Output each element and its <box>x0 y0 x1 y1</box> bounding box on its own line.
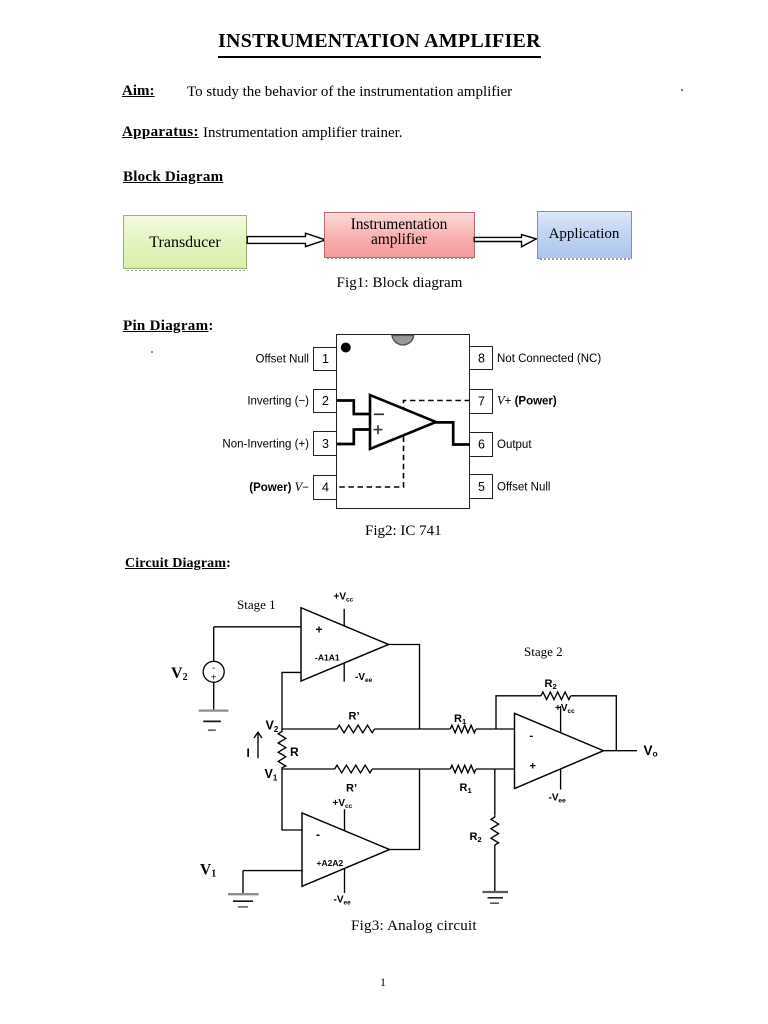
output wire Vo <box>602 750 638 752</box>
label pin7: V+ (Power) <box>497 394 557 408</box>
svg-text:R1: R1 <box>454 713 466 726</box>
resistor R2 (bottom, to ground) <box>491 816 499 845</box>
feedback wire R2 to output <box>571 696 617 751</box>
stray dot top right <box>681 89 683 91</box>
label V2 (source) <box>171 665 188 683</box>
op-amp U1 (inside IC) <box>370 395 436 449</box>
A3 -Vee label <box>549 793 567 805</box>
pin 3 <box>314 432 337 456</box>
wire pin3 to non-inverting input <box>337 430 370 445</box>
A3 -Vee stub <box>560 769 562 790</box>
A2 -Vee stub <box>344 868 346 893</box>
svg-text:-A1A1: -A1A1 <box>315 653 340 663</box>
block: instrumentation amplifier box <box>324 212 475 258</box>
label R1 (bottom) <box>460 782 472 795</box>
pin 2 <box>314 390 337 413</box>
pin-1 marker dot <box>341 343 351 353</box>
resistor R2 (feedback) <box>541 692 571 700</box>
wire output to pin 6 <box>434 422 470 444</box>
svg-text:R’: R’ <box>346 783 357 795</box>
block: transducer box <box>123 215 247 269</box>
label R <box>290 745 299 759</box>
row2 wire V1 node to R' <box>282 768 335 770</box>
label R2 (bottom) <box>470 831 482 844</box>
notch (top center) <box>392 335 414 345</box>
ground (below bottom R2) <box>483 892 509 903</box>
block diagram heading <box>123 169 223 186</box>
A2 -Vee label <box>334 895 352 907</box>
node V2 label <box>266 719 279 735</box>
svg-text:+Vcc: +Vcc <box>555 703 575 715</box>
svg-text:R1: R1 <box>460 782 472 795</box>
apparatus text <box>203 125 403 142</box>
svg-text:R: R <box>290 745 299 759</box>
source V2 (circle) <box>203 627 224 710</box>
label pin3: Non-Inverting (+) <box>222 439 309 451</box>
label R' (top) <box>349 711 360 723</box>
svg-text:Vo: Vo <box>644 743 658 759</box>
op-amp A1 <box>301 608 389 681</box>
label pin5: Offset Null <box>497 482 550 494</box>
svg-text:Stage 2: Stage 2 <box>524 644 563 659</box>
label I <box>247 746 250 760</box>
label R1 (top) <box>454 713 466 726</box>
svg-text:R2: R2 <box>470 831 482 844</box>
aim heading <box>122 83 155 100</box>
op-amp A2 <box>302 813 390 886</box>
label V1 (input) <box>200 862 216 880</box>
label pin1: Offset Null <box>256 354 309 366</box>
svg-text:-: - <box>530 730 534 742</box>
op-amp A3 (stage 2) <box>515 713 604 788</box>
A1 -Vee label <box>355 672 373 684</box>
A2 +Vcc label <box>333 798 353 810</box>
pin 1 <box>314 348 337 371</box>
pin 6 <box>470 433 493 457</box>
resistor R (between V2 and V1 nodes) <box>278 729 286 769</box>
block: application shadow <box>540 258 631 260</box>
A3 +Vcc stub <box>560 706 562 733</box>
block: arrow 1 <box>246 231 328 249</box>
wire A2 output to row2 <box>388 769 420 850</box>
wire V1 node to A2 inverting input <box>282 769 302 830</box>
label pin2: Inverting (-) <box>247 396 309 408</box>
dashed wire pin7 (V+) to op-amp top <box>404 401 471 410</box>
A3 +Vcc label <box>555 703 575 715</box>
svg-text:V1: V1 <box>265 767 278 783</box>
ground (below V2 source) <box>199 711 229 731</box>
A2 +Vcc stub <box>344 809 346 831</box>
wire row2 junction down to R2 (bottom) <box>494 769 496 816</box>
fig1 caption <box>337 275 463 292</box>
pin 7 <box>470 390 493 414</box>
svg-text:V2: V2 <box>266 719 279 735</box>
svg-text:Stage 1: Stage 1 <box>237 597 276 612</box>
svg-text:+: + <box>316 623 323 637</box>
page number <box>380 975 386 990</box>
aim text <box>187 84 512 101</box>
svg-text:+Vcc: +Vcc <box>334 592 354 604</box>
svg-text:+Vcc: +Vcc <box>333 798 353 810</box>
block: instr amp shadow <box>327 258 474 260</box>
row1 wire V2 node to R' <box>282 728 337 730</box>
pin 4 <box>314 476 337 500</box>
row1 wire R' to R1 <box>375 728 451 730</box>
pin diagram heading <box>123 318 214 335</box>
IC 741 body <box>337 335 470 509</box>
label Vo <box>644 743 658 759</box>
apparatus heading <box>122 124 199 141</box>
feedback wire node to R2 row <box>496 696 541 729</box>
label R' (bottom) <box>346 783 357 795</box>
row1 wire R1 to stage2 inverting input <box>476 728 515 730</box>
svg-text:+A2A2: +A2A2 <box>317 858 344 868</box>
label Stage 2 <box>524 644 563 659</box>
svg-text:-Vee: -Vee <box>549 793 567 805</box>
resistor R' (bottom) <box>335 765 373 773</box>
svg-text:-: - <box>316 828 320 842</box>
block: arrow 2 <box>473 230 538 248</box>
block: transducer shadow <box>127 270 247 272</box>
label pin4: (Power) V- <box>249 480 309 494</box>
wire V1 to ground <box>242 871 244 894</box>
svg-text:-Vee: -Vee <box>355 672 373 684</box>
svg-text:R2: R2 <box>545 678 557 691</box>
svg-text:+: + <box>530 761 536 773</box>
pin 5 <box>470 475 493 499</box>
pin 8 <box>470 347 493 370</box>
svg-text:-Vee: -Vee <box>334 895 352 907</box>
label pin8: Not Connected (NC) <box>497 353 601 365</box>
fig3 caption <box>351 918 477 935</box>
block: application box <box>537 211 632 259</box>
dashed wire op-amp bottom to pin4 (V-) <box>337 437 404 488</box>
row2 wire R1 to stage2 non-inverting input <box>476 768 515 770</box>
label Stage 1 <box>237 597 276 612</box>
wire A1 output to row1 <box>387 645 420 730</box>
svg-text:V2: V2 <box>171 665 188 683</box>
current arrow I <box>254 732 262 758</box>
svg-text:V1: V1 <box>200 862 216 880</box>
wire V1 input to A2 non-inverting input <box>243 870 302 872</box>
wire A1 inverting feedback to node V2 <box>282 672 301 729</box>
resistor R' (top) <box>337 725 375 733</box>
A1 +Vcc stub <box>343 609 345 627</box>
svg-text:R’: R’ <box>349 711 360 723</box>
stray dot left <box>151 351 153 353</box>
row2 wire R' to R1 <box>372 768 450 770</box>
label R2 (feedback) <box>545 678 557 691</box>
wire pin2 to inverting input <box>337 401 370 415</box>
A1 +Vcc label <box>334 592 354 604</box>
svg-text:I: I <box>247 746 250 760</box>
A1 -Vee stub <box>343 663 345 682</box>
circuit diagram heading <box>125 556 231 572</box>
resistor R1 (bottom) <box>450 765 476 773</box>
fig2 caption <box>365 523 442 540</box>
label pin6: Output <box>497 439 532 451</box>
wire V2 source to A1 + input <box>214 626 301 628</box>
resistor R1 (top) <box>450 725 476 733</box>
ground (below V1) <box>228 894 259 907</box>
wire R2 bottom to ground <box>494 845 496 892</box>
node V1 label <box>265 767 278 783</box>
title <box>218 30 541 58</box>
